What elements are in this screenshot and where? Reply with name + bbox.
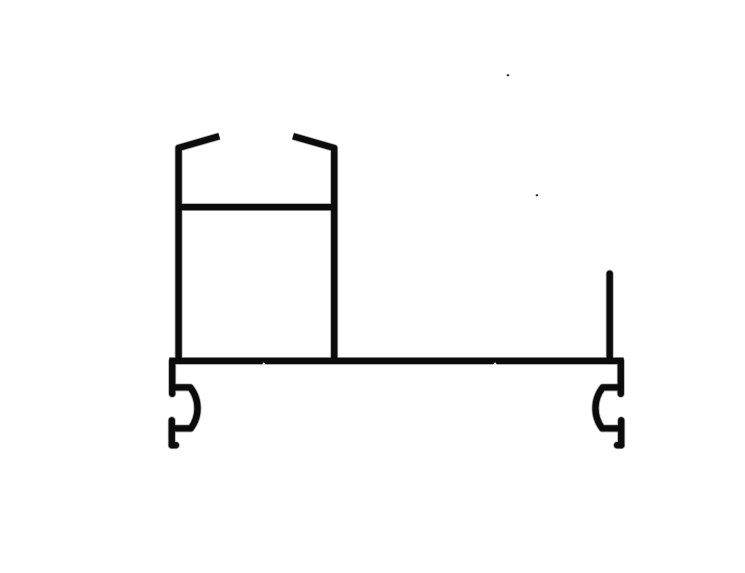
notch artifact left (262, 362, 266, 365)
main ink stroke (169, 136, 623, 445)
soft halo under-stroke (169, 136, 623, 445)
speck lower (536, 194, 538, 196)
speck upper (507, 74, 510, 76)
notch artifact right (493, 362, 497, 364)
